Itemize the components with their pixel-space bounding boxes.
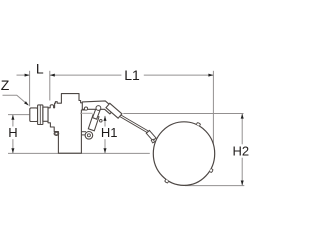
svg-text:H: H: [8, 125, 17, 140]
svg-text:L1: L1: [124, 67, 140, 83]
svg-text:L: L: [36, 61, 44, 77]
svg-text:H1: H1: [101, 125, 118, 140]
svg-text:Z: Z: [1, 77, 10, 93]
svg-text:H2: H2: [232, 144, 249, 159]
